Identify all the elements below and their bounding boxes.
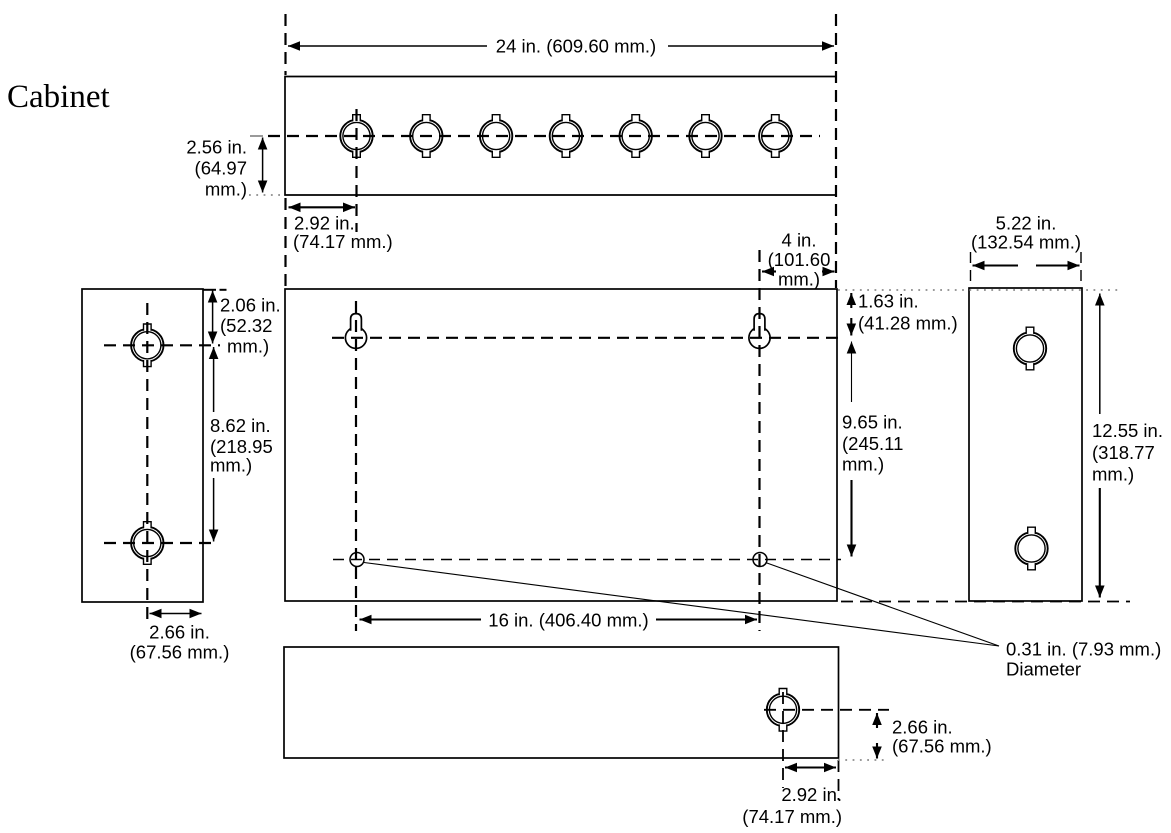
svg-text:(64.97: (64.97 [195,158,247,179]
centerline through top panel holes (gray lead-in dash) [250,135,263,137]
svg-text:12.55 in.: 12.55 in. [1092,420,1163,441]
dim 1.63 down arrow [850,318,852,336]
svg-text:0.31 in. (7.93 mm.): 0.31 in. (7.93 mm.) [1006,639,1161,660]
svg-text:mm.): mm.) [205,179,247,200]
bottom panel [284,647,839,758]
dim 2.66 right up arrow [876,713,878,728]
dim 9.65 upper segment [851,342,853,403]
svg-text:mm.): mm.) [842,454,884,475]
right side panel [969,288,1082,601]
bottom panel hole vertical centerline [782,692,784,788]
svg-text:(101.60: (101.60 [768,249,831,270]
dim 2.66 right down arrow [876,743,878,759]
top panel hole 7 [759,115,791,158]
svg-text:(67.56 mm.): (67.56 mm.) [130,642,230,663]
svg-text:(67.56 mm.): (67.56 mm.) [892,736,992,757]
svg-text:(245.11: (245.11 [842,433,903,454]
dotted line right of bottom panel [838,759,886,761]
svg-text:2.56 in.: 2.56 in. [186,137,247,158]
svg-text:9.65 in.: 9.65 in. [842,412,903,433]
svg-text:2.92 in.: 2.92 in. [781,784,842,805]
svg-text:8.62 in.: 8.62 in. [210,415,271,436]
small hole lower-right (0.31 in dia) [753,553,767,567]
top panel hole 1 [340,115,372,158]
left panel top edge extension to 2.06 dim [203,289,216,291]
dim 12.55 lower segment [1099,488,1101,598]
right panel hole upper [1014,327,1046,370]
top panel (top view) [285,77,836,196]
svg-text:24 in. (609.60 mm.): 24 in. (609.60 mm.) [496,36,656,57]
svg-text:1.63 in.: 1.63 in. [858,291,919,312]
left panel upper hole centerline [104,344,220,346]
centerline through small holes [333,559,841,561]
dim 5.22 arrow [973,264,1019,266]
svg-text:(318.77: (318.77 [1092,442,1155,463]
svg-text:2.66 in.: 2.66 in. [149,622,210,643]
dim 2.66 left arrow [150,613,202,615]
leader line from small hole right [766,563,1000,647]
right panel hole lower [1015,527,1047,570]
left panel hole upper [131,324,163,367]
svg-text:2.06 in.: 2.06 in. [220,295,281,316]
svg-text:mm.): mm.) [1092,464,1134,485]
svg-text:5.22 in.: 5.22 in. [996,213,1057,234]
bottom panel hole horizontal centerline [764,709,889,711]
left side panel [82,289,203,602]
centerline through keyholes [332,337,844,339]
dim 4in right arrow [822,270,835,272]
dim 2.56 vertical arrow [262,138,264,193]
extension dashed line x=285 between panels [284,198,286,288]
dim 2.06 arrow [212,291,214,344]
left panel lower hole centerline [104,542,214,544]
5.22 extension dash left [970,252,972,287]
vertical centerline keyhole left [355,301,357,631]
top panel hole 4 [550,115,582,158]
top panel hole 5 [620,115,652,158]
leader line from small hole left [364,563,999,647]
svg-text:(74.17 mm.): (74.17 mm.) [293,231,393,252]
top panel hole 3 [480,115,512,158]
dotted line below 2.56 dim [249,194,281,196]
dim 1.63 up arrow [850,293,852,308]
dim 8.62 upper segment [213,347,215,412]
vertical centerline keyhole right [758,250,760,631]
extension dashed line x=836 (right edge of top panel) [835,14,837,288]
dotted line y=290 to right panel [838,289,1122,291]
dim 8.62 lower segment [213,478,215,542]
dim 2.92 bottom arrow [785,766,836,768]
bottom panel hole [767,689,799,732]
top panel hole 2 [410,115,442,158]
svg-text:Diameter: Diameter [1006,659,1081,680]
svg-text:(41.28 mm.): (41.28 mm.) [858,313,958,334]
top panel hole 6 [689,115,721,158]
vertical centerline top panel hole 1 [355,109,357,232]
dim 24in left segment [288,45,487,47]
svg-text:mm.): mm.) [210,455,252,476]
dim 16in left segment [360,618,482,620]
svg-text:2.66 in.: 2.66 in. [892,717,953,738]
dim 16in right segment [656,618,757,620]
left panel vertical centerline [146,303,148,624]
svg-text:Cabinet: Cabinet [7,79,110,115]
svg-text:(132.54 mm.): (132.54 mm.) [971,232,1081,253]
extension dash x=838 below bottom panel [838,760,840,800]
svg-text:mm.): mm.) [778,269,820,290]
svg-text:4 in.: 4 in. [782,230,817,251]
dim 9.65 lower segment [850,480,852,557]
svg-text:16 in. (406.40 mm.): 16 in. (406.40 mm.) [488,610,648,631]
extension dashed line x=285 above top panel [284,14,286,75]
svg-text:(74.17 mm.): (74.17 mm.) [742,806,842,827]
middle panel (front view) [285,289,837,601]
small hole lower-left (0.31 in dia) [350,553,364,567]
svg-text:mm.): mm.) [227,336,269,357]
dim 4in left arrow [762,270,776,272]
5.22 extension dash right [1080,252,1082,287]
keyhole slot left [345,314,366,349]
dashed line y=601.5 to right panel bottom [841,601,1130,603]
svg-text:(52.32: (52.32 [220,315,272,336]
dim 12.55 upper segment [1099,294,1101,415]
left panel hole lower [131,522,163,565]
centerline through top panel holes [268,135,820,137]
dim 24in right segment [668,45,834,47]
keyhole slot right [749,314,770,349]
dim 2.92 top arrow [289,206,356,208]
